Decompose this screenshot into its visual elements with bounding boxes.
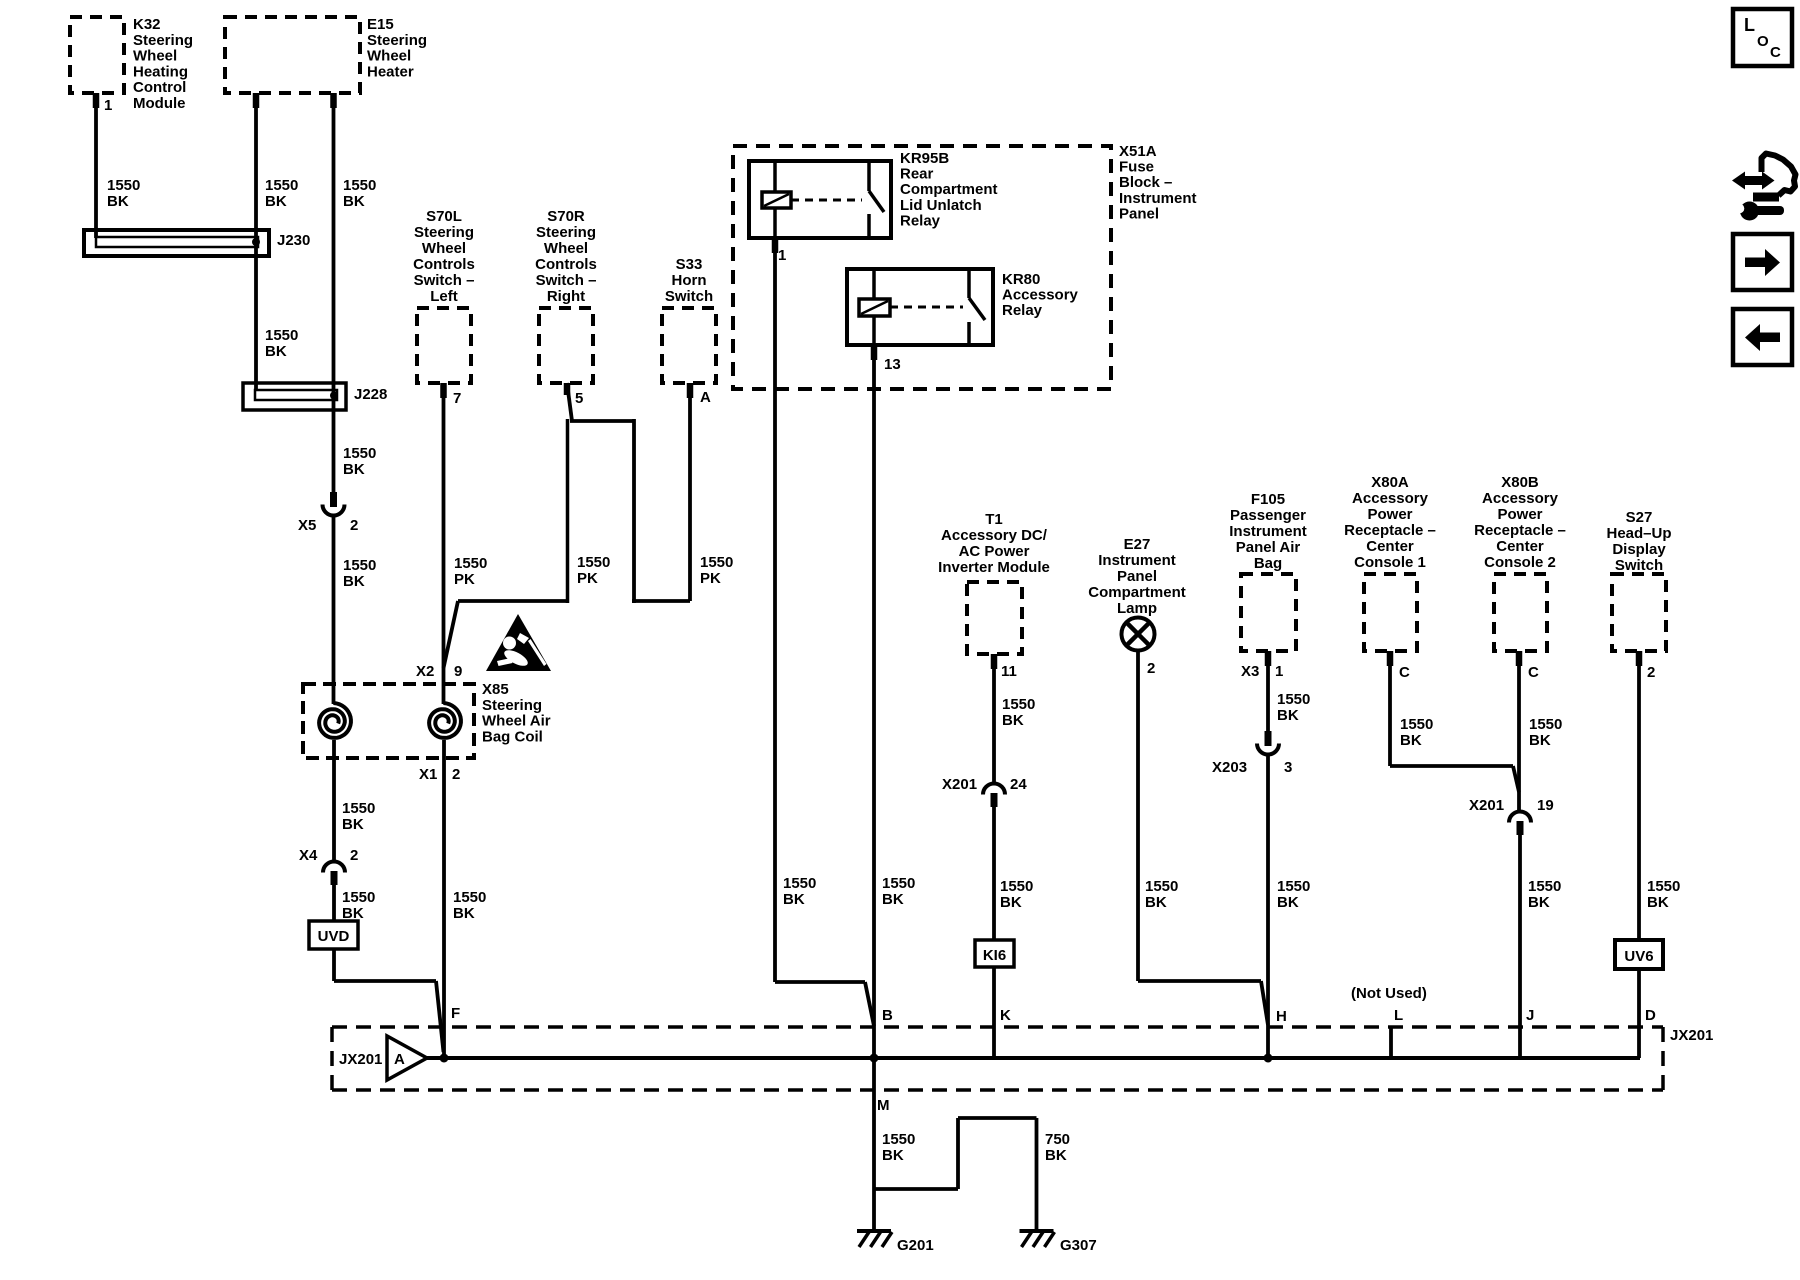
svg-text:PK: PK xyxy=(577,570,598,587)
svg-text:Panel: Panel xyxy=(1117,568,1157,585)
wire label 1550 BK (X80B lower leg) xyxy=(1528,878,1561,911)
bus pin label M xyxy=(877,1097,890,1114)
svg-text:Wheel: Wheel xyxy=(422,240,466,257)
svg-text:1550: 1550 xyxy=(342,800,375,817)
option code box KI6 xyxy=(975,940,1014,967)
component S27 Head-Up Display Switch (dashed box) xyxy=(1606,509,1671,651)
svg-text:S33: S33 xyxy=(676,256,703,273)
svg-text:Control: Control xyxy=(133,79,186,96)
bus pin label K xyxy=(1000,1007,1011,1024)
terminal A triangle of JX201 xyxy=(387,1036,427,1080)
svg-text:BK: BK xyxy=(1145,894,1167,911)
svg-text:Steering: Steering xyxy=(367,32,427,49)
pin 7 label of S70L xyxy=(453,390,461,407)
component T1 Accessory DC/AC Power Inverter Module (dashed box) xyxy=(938,511,1050,654)
svg-text:X51A: X51A xyxy=(1119,143,1157,160)
wire label 1550 BK (X80B leg) xyxy=(1529,716,1562,749)
wire S27 pin2 down to UV6 xyxy=(1636,651,1643,941)
option code box UV6 xyxy=(1615,940,1663,969)
svg-text:Passenger: Passenger xyxy=(1230,507,1306,524)
svg-text:Block –: Block – xyxy=(1119,174,1172,191)
svg-text:C: C xyxy=(1399,664,1410,681)
svg-text:BK: BK xyxy=(343,573,365,590)
svg-text:Controls: Controls xyxy=(413,256,475,273)
svg-text:F: F xyxy=(451,1005,460,1022)
svg-text:Switch: Switch xyxy=(665,288,713,305)
svg-text:X5: X5 xyxy=(298,517,316,534)
svg-text:Bag: Bag xyxy=(1254,555,1282,572)
wire label 1550 BK (T1 lower) xyxy=(1000,878,1033,911)
svg-text:Switch –: Switch – xyxy=(536,272,597,289)
svg-text:1550: 1550 xyxy=(783,875,816,892)
svg-text:Panel: Panel xyxy=(1119,205,1159,222)
svg-text:BK: BK xyxy=(1647,894,1669,911)
svg-text:D: D xyxy=(1645,1007,1656,1024)
wire label 1550 BK (KR95B leg) xyxy=(783,875,816,908)
wire branch M to G307 xyxy=(874,1118,1037,1231)
svg-text:BK: BK xyxy=(1528,894,1550,911)
svg-text:PK: PK xyxy=(700,570,721,587)
svg-text:Rear: Rear xyxy=(900,166,934,183)
pin A label of S33 xyxy=(700,389,711,406)
wire KR95B pin1 down xyxy=(772,238,779,982)
svg-text:Lid Unlatch: Lid Unlatch xyxy=(900,197,982,214)
svg-text:JX201: JX201 xyxy=(1670,1027,1713,1044)
svg-text:1550: 1550 xyxy=(343,557,376,574)
icon connector service (hand with arrow and wrench) xyxy=(1732,154,1796,221)
svg-text:Power: Power xyxy=(1497,506,1542,523)
connector JX201 (dashed outline) xyxy=(332,1027,1713,1090)
svg-text:Wheel: Wheel xyxy=(544,240,588,257)
inline connector X4 pin 2 xyxy=(299,847,358,885)
bus pin label L xyxy=(1394,1007,1403,1024)
svg-text:K32: K32 xyxy=(133,16,161,33)
junction dot at H xyxy=(1264,1054,1273,1063)
svg-text:Lamp: Lamp xyxy=(1117,600,1157,617)
component E15 Steering Wheel Heater (dashed box) xyxy=(225,16,427,93)
bus pin label F xyxy=(451,1005,460,1022)
component X85 Steering Wheel Air Bag Coil (dashed box) xyxy=(303,681,551,758)
svg-text:24: 24 xyxy=(1010,776,1027,793)
svg-text:H: H xyxy=(1276,1008,1287,1025)
svg-text:Bag Coil: Bag Coil xyxy=(482,728,543,745)
component S70R Steering Wheel Controls Switch - Right (dashed box) xyxy=(535,208,597,383)
svg-text:Accessory DC/: Accessory DC/ xyxy=(941,527,1048,544)
wire F105 pin1 down to X203 xyxy=(1265,651,1272,732)
svg-text:JX201: JX201 xyxy=(339,1051,382,1068)
relay KR80 Accessory Relay xyxy=(847,269,1079,345)
svg-text:UV6: UV6 xyxy=(1624,948,1653,965)
wire X203 to bus H xyxy=(1266,755,1270,1058)
svg-text:1550: 1550 xyxy=(107,177,140,194)
svg-text:Compartment: Compartment xyxy=(1088,584,1186,601)
wire E15 left pin to J230/J228 xyxy=(253,93,260,391)
pin labels X3 / 1 of F105 xyxy=(1241,663,1283,680)
wire K32 pin1 to J230 xyxy=(93,93,100,238)
inline connector X201 pin 19 xyxy=(1469,797,1554,835)
svg-text:1: 1 xyxy=(778,247,786,264)
component X51A Fuse Block - Instrument Panel (dashed box) xyxy=(733,143,1197,389)
svg-text:2: 2 xyxy=(452,766,460,783)
wire UVD to bus F xyxy=(334,948,444,1052)
pin 1 label of K32 xyxy=(104,97,112,114)
svg-text:X80B: X80B xyxy=(1501,474,1539,491)
svg-text:2: 2 xyxy=(1647,664,1655,681)
pin C label of X80A xyxy=(1399,664,1410,681)
svg-text:AC Power: AC Power xyxy=(959,543,1030,560)
wire label 1550 BK (K32 leg) xyxy=(107,177,140,210)
junction dot at F xyxy=(440,1054,449,1063)
svg-text:13: 13 xyxy=(884,356,901,373)
svg-text:PK: PK xyxy=(454,571,475,588)
svg-text:G201: G201 xyxy=(897,1237,934,1254)
svg-text:X3: X3 xyxy=(1241,663,1259,680)
svg-text:UVD: UVD xyxy=(318,928,350,945)
svg-text:Wheel: Wheel xyxy=(133,48,177,65)
wire X5 to air bag coil xyxy=(332,516,336,704)
wire T1 pin11 down xyxy=(991,654,998,784)
wire label 1550 BK (X1 to X4) xyxy=(342,800,375,833)
svg-text:Console 1: Console 1 xyxy=(1354,554,1426,571)
svg-text:K: K xyxy=(1000,1007,1011,1024)
svg-text:Right: Right xyxy=(547,288,585,305)
svg-text:Compartment: Compartment xyxy=(900,181,998,198)
svg-text:S27: S27 xyxy=(1626,509,1653,526)
wire label 1550 BK (X4 to UVD) xyxy=(342,889,375,922)
bus pin label J xyxy=(1526,1007,1534,1024)
svg-text:1550: 1550 xyxy=(453,889,486,906)
wire S70L pin7 down to X2 xyxy=(440,383,447,704)
wire label 1550 PK (S70R leg) xyxy=(577,554,610,587)
svg-text:1550: 1550 xyxy=(1647,878,1680,895)
svg-text:A: A xyxy=(700,389,711,406)
wire below left coil xyxy=(332,740,336,860)
svg-text:T1: T1 xyxy=(985,511,1003,528)
wire KR95B jog into B xyxy=(775,982,874,1026)
svg-text:Steering: Steering xyxy=(482,697,542,714)
inline connector X5 pin 2 xyxy=(298,492,358,534)
svg-text:9: 9 xyxy=(454,663,462,680)
svg-text:Display: Display xyxy=(1612,541,1666,558)
svg-text:Accessory: Accessory xyxy=(1482,490,1559,507)
svg-text:5: 5 xyxy=(575,390,583,407)
svg-text:1550: 1550 xyxy=(1002,696,1035,713)
svg-text:BK: BK xyxy=(783,891,805,908)
svg-text:1550: 1550 xyxy=(342,889,375,906)
svg-text:Wheel: Wheel xyxy=(367,48,411,65)
pin 2 label of S27 xyxy=(1647,664,1655,681)
clockspring coil left xyxy=(319,703,351,738)
svg-text:X203: X203 xyxy=(1212,759,1247,776)
svg-text:Instrument: Instrument xyxy=(1229,523,1307,540)
svg-text:BK: BK xyxy=(1277,894,1299,911)
wire horizontal to X2 diagonal xyxy=(458,599,569,603)
lamp symbol E27 xyxy=(1122,618,1155,651)
component S70L Steering Wheel Controls Switch - Left (dashed box) xyxy=(413,208,475,383)
svg-text:L: L xyxy=(1744,15,1755,35)
svg-text:1550: 1550 xyxy=(1145,878,1178,895)
svg-text:Accessory: Accessory xyxy=(1002,287,1079,304)
svg-text:S70R: S70R xyxy=(547,208,585,225)
wire label 1550 BK (E15 right leg) xyxy=(343,177,376,210)
svg-text:KR95B: KR95B xyxy=(900,150,949,167)
pin 5 label of S70R xyxy=(575,390,583,407)
svg-text:BK: BK xyxy=(343,461,365,478)
svg-text:BK: BK xyxy=(882,1147,904,1164)
svg-text:Head–Up: Head–Up xyxy=(1606,525,1671,542)
wire S70R vertical to jog xyxy=(566,419,570,603)
svg-text:Switch –: Switch – xyxy=(414,272,475,289)
ground G201 xyxy=(857,1231,934,1254)
wire jog bottom horizontal to S33 leg xyxy=(632,599,690,603)
svg-text:Inverter Module: Inverter Module xyxy=(938,559,1050,576)
svg-text:1550: 1550 xyxy=(882,875,915,892)
wire diagonal into X2 pin 9 xyxy=(444,601,459,668)
svg-text:BK: BK xyxy=(342,816,364,833)
svg-text:1550: 1550 xyxy=(265,177,298,194)
svg-text:BK: BK xyxy=(1529,732,1551,749)
wire X4 to UVD xyxy=(332,884,336,922)
svg-text:BK: BK xyxy=(1045,1147,1067,1164)
wire label 1550 BK (F105 upper) xyxy=(1277,691,1310,724)
svg-text:J: J xyxy=(1526,1007,1534,1024)
wire X201-19 to bus J xyxy=(1518,834,1522,1058)
svg-text:2: 2 xyxy=(350,847,358,864)
svg-text:G307: G307 xyxy=(1060,1237,1097,1254)
pin 11 label of T1 xyxy=(1001,663,1017,680)
svg-text:1550: 1550 xyxy=(577,554,610,571)
svg-text:X1: X1 xyxy=(419,766,437,783)
ground G307 xyxy=(1020,1231,1097,1254)
svg-text:BK: BK xyxy=(265,193,287,210)
svg-text:E15: E15 xyxy=(367,16,394,33)
airbag warning triangle symbol xyxy=(486,614,551,671)
icon LOC box xyxy=(1733,9,1792,66)
splice pack J228 xyxy=(243,383,387,410)
svg-text:KR80: KR80 xyxy=(1002,271,1040,288)
svg-text:7: 7 xyxy=(453,390,461,407)
svg-text:Heating: Heating xyxy=(133,63,188,80)
svg-text:X80A: X80A xyxy=(1371,474,1409,491)
svg-text:BK: BK xyxy=(343,193,365,210)
relay KR95B Rear Compartment Lid Unlatch Relay xyxy=(749,150,998,238)
wire label 1550 BK (T1 upper) xyxy=(1002,696,1035,729)
svg-text:Instrument: Instrument xyxy=(1119,190,1197,207)
svg-text:O: O xyxy=(1757,33,1769,50)
wire UV6 to bus D xyxy=(1637,968,1641,1058)
svg-text:BK: BK xyxy=(1400,732,1422,749)
svg-text:2: 2 xyxy=(350,517,358,534)
svg-text:1550: 1550 xyxy=(700,554,733,571)
svg-text:2: 2 xyxy=(1147,660,1155,677)
component X80A Accessory Power Receptacle - Center Console 1 (dashed box) xyxy=(1344,474,1436,651)
svg-text:S70L: S70L xyxy=(426,208,462,225)
wire stub L (not used) xyxy=(1389,1027,1393,1058)
wire S70R pin5 diagonal xyxy=(564,383,572,421)
svg-text:1550: 1550 xyxy=(1277,691,1310,708)
component K32 Steering Wheel Heating Control Module (dashed box) xyxy=(70,16,193,112)
svg-text:BK: BK xyxy=(107,193,129,210)
svg-text:X4: X4 xyxy=(299,847,318,864)
svg-text:19: 19 xyxy=(1537,797,1554,814)
svg-text:Relay: Relay xyxy=(900,212,941,229)
wire label 1550 BK (F105 lower) xyxy=(1277,878,1310,911)
wire below right coil (to bus F) xyxy=(442,740,446,1058)
junction dot at B xyxy=(870,1054,879,1063)
svg-text:1: 1 xyxy=(1275,663,1283,680)
svg-text:KI6: KI6 xyxy=(983,947,1006,964)
svg-text:BK: BK xyxy=(1277,707,1299,724)
icon back arrow box xyxy=(1733,309,1792,365)
svg-text:1550: 1550 xyxy=(343,177,376,194)
svg-text:F105: F105 xyxy=(1251,491,1285,508)
svg-text:3: 3 xyxy=(1284,759,1292,776)
svg-text:C: C xyxy=(1528,664,1539,681)
svg-text:A: A xyxy=(394,1051,405,1068)
bus pin label D xyxy=(1645,1007,1656,1024)
svg-text:Receptacle –: Receptacle – xyxy=(1474,522,1566,539)
wire label 1550 BK (X5 to coil) xyxy=(343,557,376,590)
svg-text:BK: BK xyxy=(882,891,904,908)
svg-text:1550: 1550 xyxy=(882,1131,915,1148)
svg-text:Console 2: Console 2 xyxy=(1484,554,1556,571)
svg-text:Horn: Horn xyxy=(672,272,707,289)
svg-text:X201: X201 xyxy=(942,776,977,793)
wire X201-24 to KI6 xyxy=(992,806,996,941)
svg-text:Center: Center xyxy=(1366,538,1414,555)
svg-text:Accessory: Accessory xyxy=(1352,490,1429,507)
wire label 1550 PK (S70L leg) xyxy=(454,555,487,588)
svg-text:11: 11 xyxy=(1001,663,1017,680)
svg-text:J230: J230 xyxy=(277,232,310,249)
svg-text:E27: E27 xyxy=(1124,536,1151,553)
wire label 750 BK (G307 leg) xyxy=(1045,1131,1070,1164)
wire E15 right pin down to X5 xyxy=(330,93,337,492)
pin 1 label of KR95B xyxy=(778,247,786,264)
svg-text:Fuse: Fuse xyxy=(1119,159,1154,176)
svg-text:1550: 1550 xyxy=(1000,878,1033,895)
svg-text:(Not Used): (Not Used) xyxy=(1351,985,1427,1002)
wire label 1550 BK (E27 leg) xyxy=(1145,878,1178,911)
bus pin label H xyxy=(1276,1008,1287,1025)
svg-text:1550: 1550 xyxy=(1528,878,1561,895)
wire label 1550 BK (M leg) xyxy=(882,1131,915,1164)
option code box UVD xyxy=(309,921,358,949)
svg-text:M: M xyxy=(877,1097,890,1114)
svg-text:Instrument: Instrument xyxy=(1098,552,1176,569)
wire jog right vertical xyxy=(632,419,636,603)
svg-text:Power: Power xyxy=(1367,506,1412,523)
icon forward arrow box xyxy=(1733,234,1792,290)
wire label 1550 PK (S33 leg) xyxy=(700,554,733,587)
svg-text:1550: 1550 xyxy=(265,327,298,344)
wire label 1550 BK (X80A leg) xyxy=(1400,716,1433,749)
pin labels X1 / 2 xyxy=(419,766,460,783)
svg-text:Module: Module xyxy=(133,95,186,112)
pin 13 label of KR80 xyxy=(884,356,901,373)
pin labels X2 / 9 xyxy=(416,663,462,680)
component X80B Accessory Power Receptacle - Center Console 2 (dashed box) xyxy=(1474,474,1566,651)
pin 2 label of E27 xyxy=(1147,660,1155,677)
svg-text:1550: 1550 xyxy=(454,555,487,572)
svg-text:Relay: Relay xyxy=(1002,302,1043,319)
svg-text:C: C xyxy=(1770,44,1781,61)
wire label 1550 BK (between J230 and J228) xyxy=(265,327,298,360)
svg-text:Center: Center xyxy=(1496,538,1544,555)
wire KR80 pin13 down through bus to M xyxy=(871,345,878,1231)
wire label 1550 BK (J228 to X5) xyxy=(343,445,376,478)
component S33 Horn Switch (dashed box) xyxy=(662,256,716,383)
svg-text:BK: BK xyxy=(453,905,475,922)
component E27 Instrument Panel Compartment Lamp (label) xyxy=(1088,536,1186,617)
svg-text:Wheel Air: Wheel Air xyxy=(482,713,551,730)
pin C label of X80B xyxy=(1528,664,1539,681)
svg-text:X2: X2 xyxy=(416,663,434,680)
component F105 Passenger Instrument Panel Air Bag (dashed box) xyxy=(1229,491,1307,651)
svg-text:750: 750 xyxy=(1045,1131,1070,1148)
wire jog top horizontal xyxy=(570,419,634,423)
ground bus wire inside JX201 xyxy=(425,1056,1640,1060)
svg-text:J228: J228 xyxy=(354,386,387,403)
bus pin label B xyxy=(882,1007,893,1024)
svg-text:Steering: Steering xyxy=(414,224,474,241)
svg-text:1550: 1550 xyxy=(1400,716,1433,733)
svg-text:Receptacle –: Receptacle – xyxy=(1344,522,1436,539)
label (Not Used) at L xyxy=(1351,985,1427,1002)
svg-text:1550: 1550 xyxy=(1529,716,1562,733)
inline connector X201 pin 24 xyxy=(942,776,1027,807)
wire label 1550 BK (KR80 leg) xyxy=(882,875,915,908)
wire label 1550 BK (S27 leg) xyxy=(1647,878,1680,911)
inline connector X203 pin 3 xyxy=(1212,731,1292,776)
clockspring coil right xyxy=(429,703,461,738)
svg-text:1: 1 xyxy=(104,97,112,114)
svg-text:Left: Left xyxy=(430,288,458,305)
wire label 1550 BK (E15 left leg) xyxy=(265,177,298,210)
svg-text:Steering: Steering xyxy=(133,32,193,49)
svg-text:Heater: Heater xyxy=(367,63,414,80)
svg-text:Controls: Controls xyxy=(535,256,597,273)
svg-text:X201: X201 xyxy=(1469,797,1504,814)
splice pack J230 xyxy=(84,230,310,256)
wire label 1550 BK (S70L lower leg) xyxy=(453,889,486,922)
svg-text:BK: BK xyxy=(265,343,287,360)
wire X80A pinC down and right into X201-19 xyxy=(1387,651,1519,792)
svg-text:B: B xyxy=(882,1007,893,1024)
svg-text:Panel Air: Panel Air xyxy=(1236,539,1301,556)
svg-text:X85: X85 xyxy=(482,681,509,698)
wire X80B pinC down to X201-19 xyxy=(1516,651,1523,812)
svg-text:BK: BK xyxy=(1002,712,1024,729)
svg-text:L: L xyxy=(1394,1007,1403,1024)
wire S33 pinA down xyxy=(687,383,694,601)
svg-text:1550: 1550 xyxy=(343,445,376,462)
svg-text:BK: BK xyxy=(1000,894,1022,911)
svg-text:Switch: Switch xyxy=(1615,557,1663,574)
svg-text:Steering: Steering xyxy=(536,224,596,241)
wire E27 down and jog into H xyxy=(1138,650,1268,1025)
svg-text:1550: 1550 xyxy=(1277,878,1310,895)
wire KI6 to bus K xyxy=(992,967,996,1058)
